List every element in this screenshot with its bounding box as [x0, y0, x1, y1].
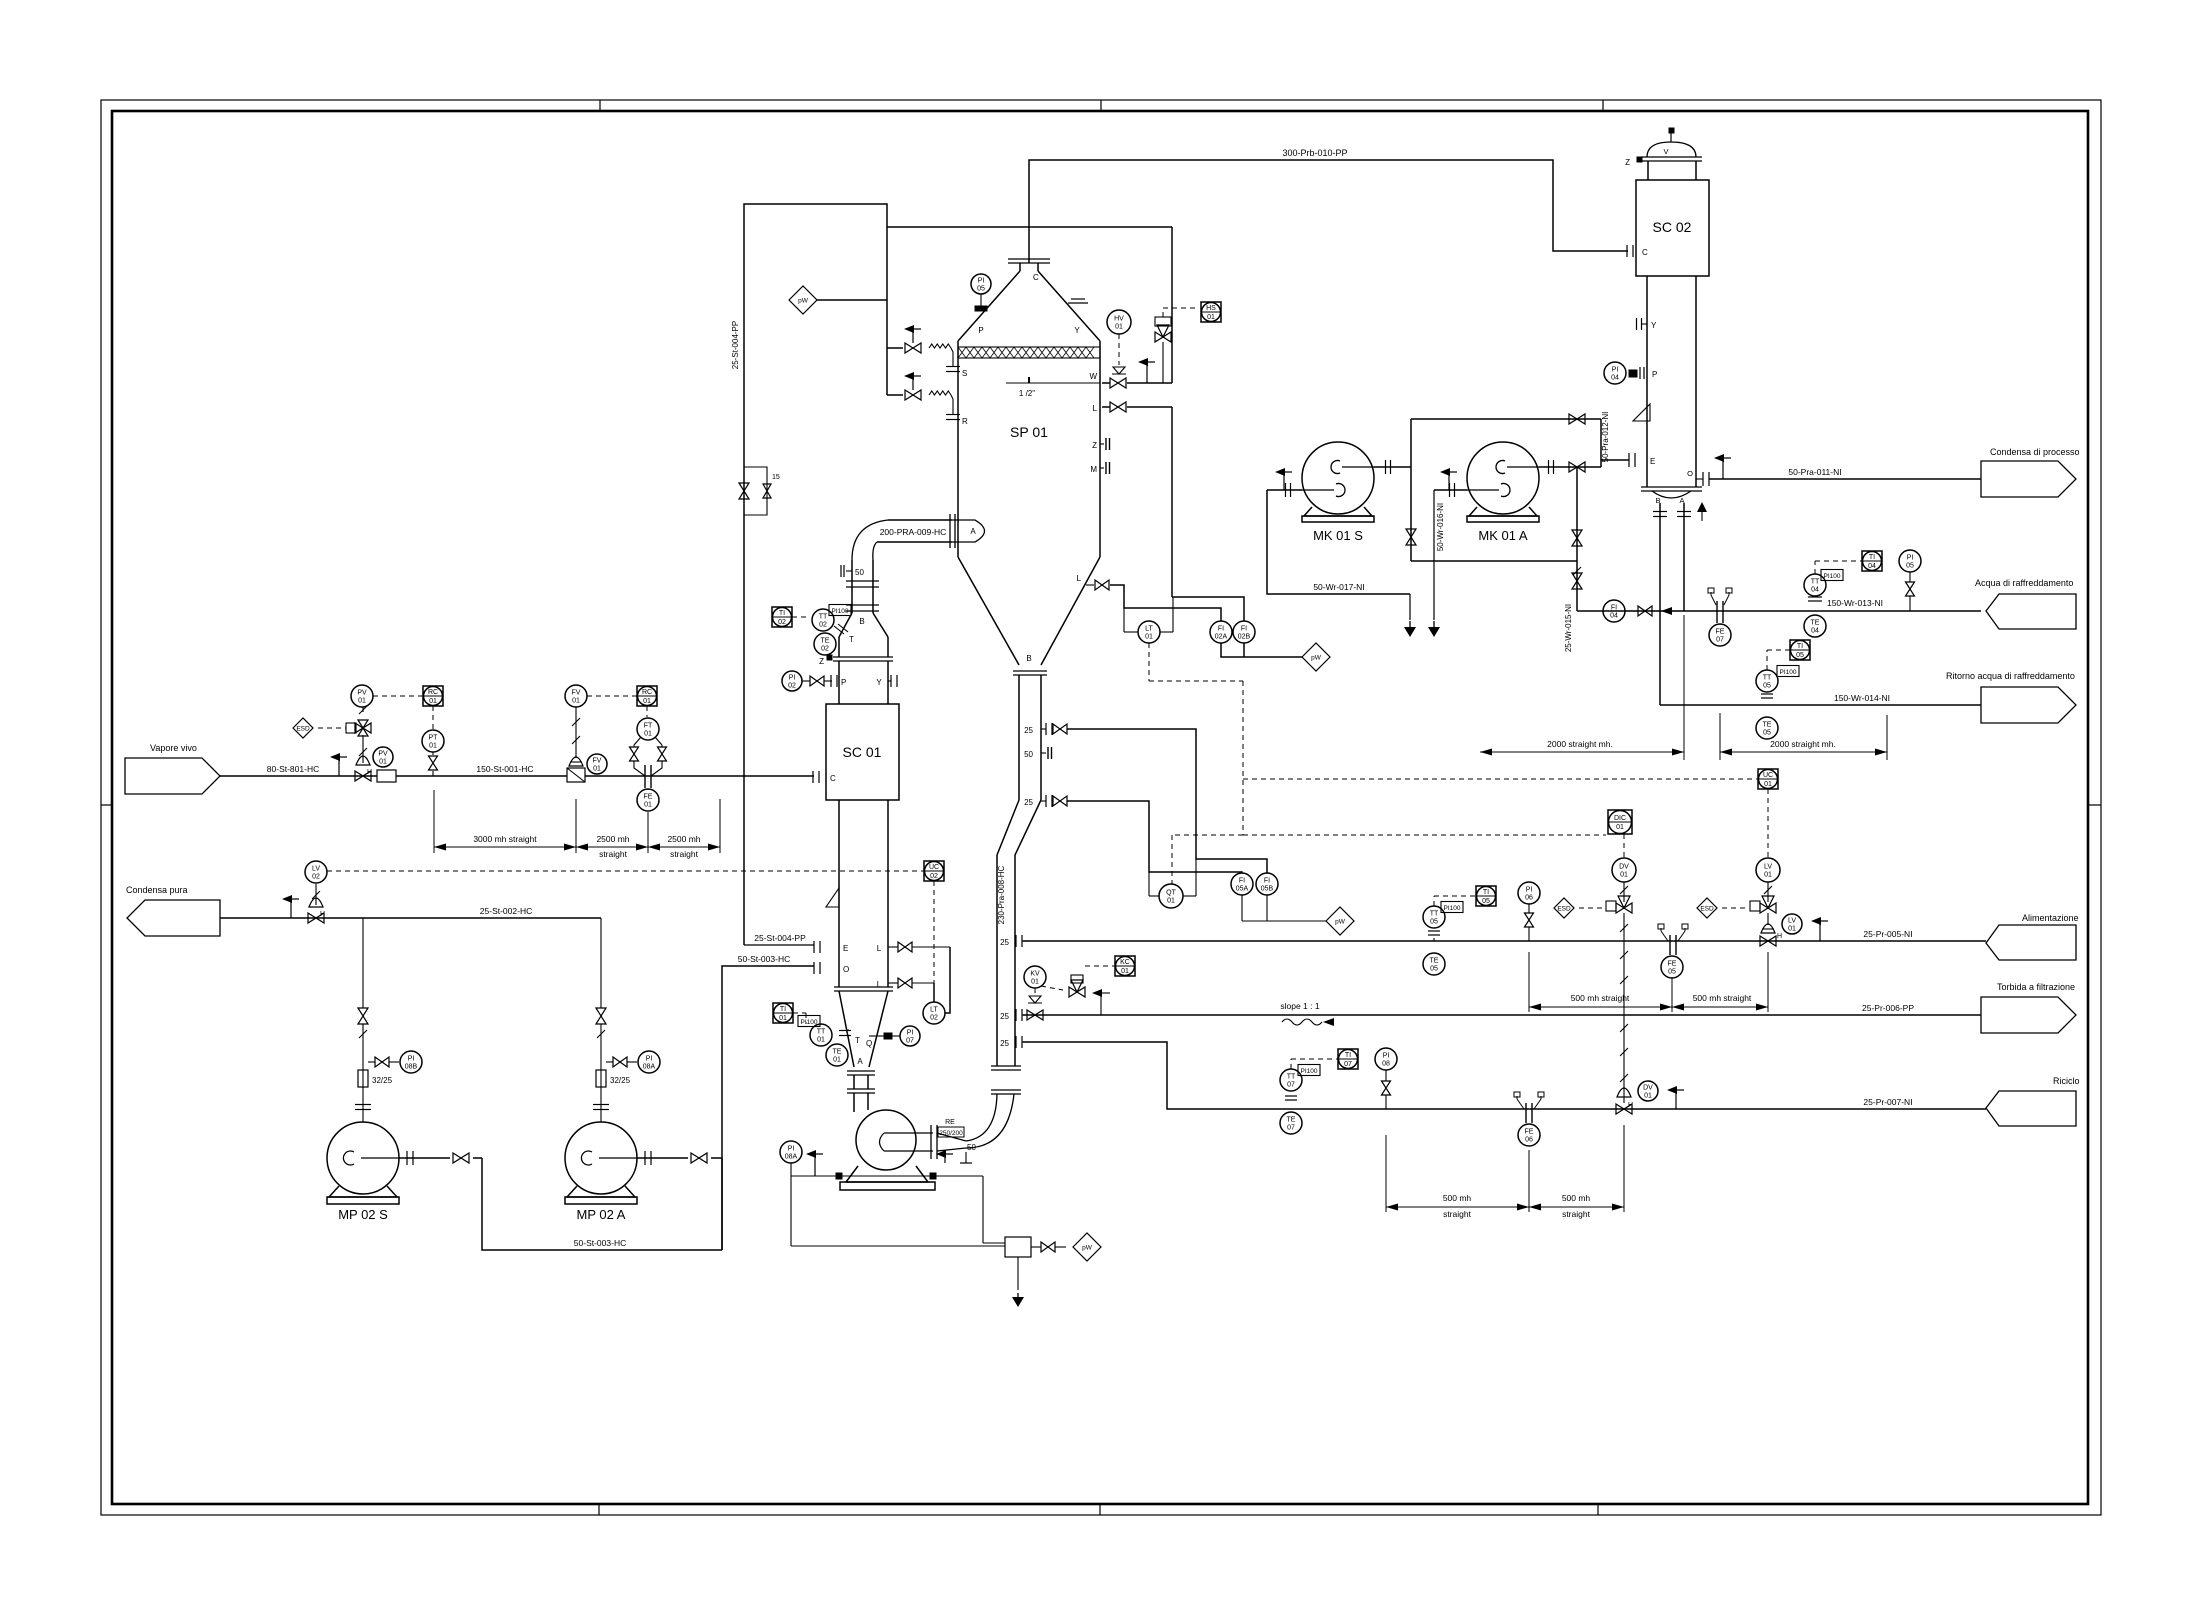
PI04 seal band	[1629, 370, 1637, 377]
svg-text:05: 05	[977, 286, 985, 293]
SC02 dished bottom	[1652, 491, 1691, 498]
wire 25-Pr-006	[1023, 1014, 1981, 1016]
muffler rect	[377, 770, 396, 782]
LT02 instrument	[923, 1002, 945, 1024]
P flange SC01	[830, 675, 832, 687]
TI01 panel instrument	[773, 1003, 793, 1023]
PI100 box TT01	[798, 1016, 820, 1027]
T stub cone	[846, 1029, 849, 1031]
MP02S discharge flange	[406, 1151, 408, 1165]
valve W nozzle	[1110, 378, 1126, 388]
wire equal right riser	[1576, 467, 1578, 611]
valve seal pot	[1041, 1242, 1055, 1252]
DV01 drain valve	[1617, 1088, 1631, 1097]
vent flag steam	[338, 757, 340, 776]
fold tick right-mid	[2088, 804, 2101, 806]
TI04 panel instrument	[1862, 551, 1882, 571]
enclosure top edge	[887, 226, 1172, 228]
svg-text:32/25: 32/25	[372, 1076, 393, 1085]
TI02 dashed	[792, 616, 810, 618]
TI02 panel instrument	[772, 607, 792, 627]
wire MP02S down	[482, 1158, 722, 1250]
svg-text:TI: TI	[780, 1006, 786, 1013]
svg-text:2500 mh: 2500 mh	[596, 834, 629, 844]
MP02S suction valve	[358, 1008, 368, 1024]
duct 200-PRA horizontal walls	[888, 519, 952, 521]
vent arrow near A	[1701, 507, 1703, 521]
svg-text:2500 mh: 2500 mh	[667, 834, 700, 844]
svg-text:01: 01	[644, 731, 652, 738]
svg-text:06: 06	[1525, 1137, 1533, 1144]
svg-text:PI: PI	[789, 675, 796, 682]
svg-text:E: E	[1650, 457, 1655, 466]
steam dim arrows	[434, 844, 446, 851]
svg-text:02: 02	[819, 622, 827, 629]
MK01A discharge wire	[1539, 466, 1601, 468]
svg-text:T: T	[849, 635, 854, 644]
svg-text:H: H	[320, 911, 325, 918]
FV01 stem	[575, 707, 577, 758]
HS01 signal dashed	[1162, 308, 1164, 317]
QT01 loop	[1148, 872, 1150, 896]
svg-text:01: 01	[1788, 926, 1796, 933]
valve PI02	[810, 676, 824, 686]
SC01 bottom flange	[834, 986, 893, 988]
svg-text:01: 01	[593, 766, 601, 773]
svg-text:Y: Y	[876, 678, 882, 687]
label 250/200	[938, 1127, 964, 1137]
svg-text:PI: PI	[408, 1056, 415, 1063]
svg-text:Condensa di processo: Condensa di processo	[1990, 447, 2080, 457]
svg-text:01: 01	[1121, 968, 1129, 975]
svg-text:LT: LT	[930, 1007, 938, 1014]
bypass loop	[744, 467, 767, 515]
M blind nozzle	[1100, 467, 1104, 469]
MK01S suction flange	[1285, 483, 1287, 497]
svg-text:150-Wr-014-NI: 150-Wr-014-NI	[1834, 693, 1890, 703]
Condensa di processo pentagon	[1981, 461, 2076, 497]
SC02 neck walls	[1647, 161, 1649, 180]
riser flange pair B	[991, 1089, 1021, 1091]
wire cone L to LT01	[1110, 585, 1221, 621]
fold tick bottom-right	[1597, 1504, 1599, 1515]
SC01 neck walls	[838, 661, 840, 704]
PI05b instrument	[1899, 550, 1921, 572]
seal pot drain arrow	[1017, 1257, 1019, 1290]
slope squiggle	[1282, 1019, 1322, 1025]
vent flag 005	[1819, 921, 1821, 941]
svg-text:08A: 08A	[643, 1064, 656, 1071]
svg-text:01: 01	[1031, 979, 1039, 986]
svg-text:02: 02	[821, 646, 829, 653]
svg-text:01: 01	[1145, 634, 1153, 641]
MK01S suction wire	[1267, 489, 1302, 491]
wire to E nozzle	[744, 944, 814, 946]
MP02A branch valve	[613, 1057, 627, 1067]
svg-text:LV: LV	[1764, 864, 1772, 871]
svg-text:pW: pW	[1082, 1245, 1093, 1252]
MK01S blower circle	[1302, 442, 1374, 514]
duct 50 stub	[846, 570, 852, 572]
UC02 panel instrument	[924, 861, 944, 881]
SP01 shell right wall	[1099, 341, 1101, 557]
svg-text:DIC: DIC	[1614, 815, 1626, 822]
svg-text:01: 01	[1167, 898, 1175, 905]
vent flag 011	[1722, 458, 1724, 479]
svg-text:DV: DV	[1643, 1085, 1653, 1092]
reducer	[937, 1133, 966, 1141]
svg-text:05: 05	[1430, 919, 1438, 926]
svg-text:32/25: 32/25	[610, 1076, 631, 1085]
svg-text:80-St-801-HC: 80-St-801-HC	[267, 764, 319, 774]
svg-text:straight: straight	[599, 849, 628, 859]
svg-text:RC: RC	[428, 689, 438, 696]
svg-text:TT: TT	[1430, 911, 1439, 918]
svg-text:15: 15	[772, 474, 780, 481]
svg-text:05: 05	[1763, 730, 1771, 737]
FE05 orifice taps	[1660, 928, 1662, 931]
O nozzle SC02	[1702, 472, 1704, 486]
vent flag S purge	[912, 329, 914, 343]
DV dashed	[1579, 907, 1605, 909]
duct flange pair 2	[846, 604, 879, 606]
ESD actuator box	[346, 723, 356, 733]
svg-text:01: 01	[817, 1037, 825, 1044]
svg-text:C: C	[1033, 273, 1039, 282]
MK01S discharge wire	[1374, 466, 1411, 468]
svg-text:TE: TE	[1811, 620, 1820, 627]
svg-text:FV: FV	[593, 758, 602, 765]
svg-text:A: A	[970, 527, 976, 536]
svg-text:07: 07	[1344, 1061, 1352, 1068]
wire Q to PI07	[869, 1035, 884, 1037]
svg-text:500 mh: 500 mh	[1562, 1193, 1591, 1203]
svg-text:25: 25	[1000, 1012, 1009, 1021]
steam dim ext lines	[433, 790, 435, 853]
SC02 dome	[1647, 142, 1696, 157]
svg-text:01: 01	[643, 698, 651, 705]
LV01 bubble2	[1782, 914, 1802, 934]
PI100 box TT05b	[1441, 902, 1463, 913]
svg-text:01: 01	[429, 698, 437, 705]
svg-text:500 mh straight: 500 mh straight	[1693, 993, 1752, 1003]
LV01 3-way	[1760, 903, 1776, 913]
A neck to pump	[853, 1093, 855, 1112]
svg-text:FI: FI	[1239, 878, 1245, 885]
wire 25-Pr-005	[1023, 940, 1986, 942]
MP02S discharge valve	[453, 1153, 469, 1163]
TT07 instrument	[1280, 1069, 1302, 1091]
pump seal drain lines	[790, 1163, 792, 1246]
svg-text:pW: pW	[798, 298, 809, 305]
wire 25-St-004 riser	[744, 204, 887, 945]
svg-text:TE: TE	[1430, 958, 1439, 965]
svg-text:TT: TT	[1287, 1074, 1296, 1081]
MP02A pump hub	[581, 1151, 592, 1165]
PI05 stem	[980, 294, 982, 306]
TT07 dashed	[1290, 1059, 1292, 1069]
svg-text:25: 25	[1000, 938, 1009, 947]
enclosure right edge upper	[1171, 227, 1173, 383]
svg-text:50-St-003-HC: 50-St-003-HC	[738, 954, 790, 964]
valve 006	[1027, 1010, 1043, 1020]
LV02 stem slash	[315, 884, 317, 905]
PI100 box TT07	[1298, 1065, 1320, 1076]
A neck flange 2	[847, 1088, 875, 1090]
svg-text:1 /2": 1 /2"	[1019, 389, 1035, 398]
SC02 neck flange	[1641, 156, 1702, 158]
LV02 bubble	[305, 861, 327, 883]
svg-text:02: 02	[930, 1015, 938, 1022]
FI02A instrument	[1210, 621, 1232, 643]
MP02A discharge wire	[637, 1157, 688, 1159]
svg-text:08A: 08A	[785, 1154, 798, 1161]
MP02A reducer 32/25	[596, 1070, 606, 1087]
valve 012 top	[1569, 414, 1585, 424]
Y stub SC01	[890, 675, 892, 687]
svg-text:TE: TE	[821, 638, 830, 645]
ESD diamond LV	[1697, 898, 1717, 918]
svg-text:01: 01	[572, 698, 580, 705]
svg-text:Ritorno acqua di raffreddament: Ritorno acqua di raffreddamento	[1946, 671, 2075, 681]
wire sample top	[1067, 729, 1267, 873]
svg-text:LV: LV	[312, 866, 320, 873]
MP02S branch valve	[375, 1057, 389, 1067]
FT01 tap valve B	[658, 747, 667, 761]
svg-text:25-St-004-PP: 25-St-004-PP	[754, 933, 806, 943]
08B instrument	[400, 1051, 422, 1073]
FV01 bubble	[587, 754, 607, 774]
svg-text:200-PRA-009-HC: 200-PRA-009-HC	[880, 527, 947, 537]
svg-text:50-Wr-016-NI: 50-Wr-016-NI	[1436, 503, 1445, 551]
svg-text:TT: TT	[1763, 675, 1772, 682]
FI05B instrument	[1256, 873, 1278, 895]
MP02S base	[329, 1186, 397, 1197]
TT01 instrument	[810, 1024, 832, 1046]
bypass valve main	[739, 483, 749, 499]
svg-text:25: 25	[1024, 798, 1033, 807]
wire equalization	[1411, 560, 1577, 562]
PI08A pump instrument	[780, 1141, 802, 1163]
UC02 dashed to LT02	[933, 881, 935, 1002]
svg-text:TI: TI	[1345, 1052, 1351, 1059]
svg-text:04: 04	[1611, 375, 1619, 382]
LV01 valve	[1767, 913, 1769, 925]
PT01 root valve	[429, 756, 438, 770]
FE07 orifice taps	[1710, 592, 1712, 595]
dim 500 bottom line b	[1529, 1206, 1624, 1208]
svg-text:500 mh: 500 mh	[1443, 1193, 1472, 1203]
svg-text:300-Prb-010-PP: 300-Prb-010-PP	[1282, 148, 1347, 158]
svg-text:01: 01	[1616, 824, 1624, 831]
TE01 instrument	[826, 1044, 848, 1066]
svg-text:E: E	[843, 944, 848, 953]
svg-text:05: 05	[1668, 969, 1676, 976]
spring R purge	[929, 391, 951, 395]
MK01A vent flag	[1448, 472, 1450, 490]
PI100 box TT05	[1777, 666, 1799, 677]
PI08 valve	[1382, 1081, 1391, 1095]
svg-text:LT: LT	[1145, 626, 1153, 633]
pump drain stub	[965, 1152, 967, 1163]
FE05 orifice flanges	[1669, 935, 1671, 955]
TT04 instrument	[1804, 574, 1826, 596]
RC01-PT01 dashed	[432, 706, 434, 730]
svg-text:PI100: PI100	[832, 608, 849, 615]
dim 500 line a	[1529, 1006, 1672, 1008]
3-way actuator box	[1155, 317, 1171, 326]
LV02-UC02 dashed	[327, 870, 924, 872]
DV01 bubble	[1612, 858, 1636, 882]
svg-text:TI: TI	[1483, 889, 1489, 896]
dim 2000 line left	[1480, 751, 1684, 753]
svg-text:P: P	[1652, 370, 1657, 379]
KV01 dashed	[1041, 986, 1063, 990]
svg-text:slope 1 : 1: slope 1 : 1	[1280, 1001, 1319, 1011]
KC01 panel instrument	[1115, 956, 1135, 976]
vent flag on W line	[1146, 362, 1148, 383]
Z tick	[827, 655, 832, 660]
FI02B instrument	[1233, 621, 1255, 643]
SC01 lower walls	[838, 800, 840, 987]
wire MK01S suction riser	[1267, 490, 1410, 594]
svg-text:FE: FE	[1525, 1129, 1534, 1136]
riser jog	[997, 800, 1019, 855]
seal line tick 2	[930, 1173, 936, 1179]
KV01 relief	[1028, 996, 1042, 1003]
svg-text:05: 05	[1763, 683, 1771, 690]
svg-text:W: W	[1089, 372, 1097, 381]
A neck flange 1	[847, 1070, 875, 1072]
TT05 flange	[1761, 693, 1773, 695]
svg-text:02A: 02A	[1215, 634, 1228, 641]
pW connector FI02	[1302, 643, 1330, 671]
SC02 level triangle	[1633, 404, 1650, 421]
PI04 instrument	[1604, 362, 1626, 384]
steam dim line	[434, 846, 720, 848]
LV01 bubble top	[1756, 858, 1780, 882]
SC02 head box	[1636, 180, 1709, 276]
svg-text:PI100: PI100	[1444, 905, 1461, 912]
svg-text:02: 02	[930, 873, 938, 880]
svg-text:PI: PI	[646, 1056, 653, 1063]
KC01 dashed	[1085, 965, 1115, 967]
pump discharge stadium	[880, 1133, 934, 1151]
svg-text:straight: straight	[1443, 1209, 1472, 1219]
svg-text:TE: TE	[1287, 1117, 1296, 1124]
TT05b flange	[1428, 930, 1440, 932]
svg-text:2000 straight mh.: 2000 straight mh.	[1770, 739, 1836, 749]
3-way valve on W riser	[1155, 332, 1171, 342]
MP02S reducer 32/25	[358, 1070, 368, 1087]
svg-text:FI: FI	[1264, 878, 1270, 885]
svg-text:TT: TT	[817, 1029, 826, 1036]
Acqua pentagon	[1986, 594, 2076, 629]
Y nozzle stub on cone	[1068, 302, 1088, 304]
A line flange	[1677, 511, 1691, 513]
dim 500 bottom line a	[1386, 1206, 1529, 1208]
TI05b panel instrument	[1476, 886, 1496, 906]
MP02A suction valve	[596, 1008, 606, 1024]
SC01 bottom cone	[839, 991, 854, 1067]
svg-text:T: T	[855, 1036, 860, 1045]
svg-text:FE: FE	[1668, 961, 1677, 968]
PI05 seal band	[975, 306, 987, 311]
FV01 controller bubble	[565, 685, 587, 707]
wire 012 drop	[1600, 419, 1602, 467]
svg-text:PI100: PI100	[1824, 573, 1841, 580]
vent pole 006	[1100, 993, 1102, 1015]
FE06 orifice flanges	[1525, 1103, 1527, 1123]
svg-text:Y: Y	[1074, 326, 1080, 335]
svg-text:FT: FT	[644, 723, 653, 730]
svg-text:FI: FI	[1218, 626, 1224, 633]
wire FI05 to pW	[1241, 895, 1243, 921]
Riciclo pentagon	[1986, 1091, 2076, 1126]
svg-text:ESD: ESD	[1557, 906, 1571, 913]
TE07 instrument	[1280, 1112, 1302, 1134]
FE07 instrument	[1709, 624, 1731, 646]
Ritorno pentagon	[1981, 687, 2076, 723]
svg-text:PI100: PI100	[1780, 669, 1797, 676]
valve 015	[1572, 573, 1582, 589]
svg-text:SP 01: SP 01	[1010, 424, 1048, 440]
svg-text:PI: PI	[907, 1030, 914, 1037]
svg-text:500 mh straight: 500 mh straight	[1571, 993, 1630, 1003]
MK01A hub top	[1496, 461, 1505, 474]
duct end cap A	[952, 520, 985, 542]
PI06 valve	[1525, 913, 1534, 927]
svg-text:HV: HV	[1114, 316, 1124, 323]
svg-text:01: 01	[358, 698, 366, 705]
TI07 panel instrument	[1338, 1049, 1358, 1069]
discharge elbow inner	[966, 1094, 997, 1141]
valve 25 bottom	[1053, 796, 1067, 806]
wire B line	[1659, 503, 1661, 705]
08A instrument	[638, 1051, 660, 1073]
L top nozzle valve	[898, 942, 912, 952]
pW connector SP01	[789, 286, 817, 314]
PI02 instrument	[782, 671, 802, 691]
svg-text:07: 07	[1287, 1125, 1295, 1132]
svg-text:01: 01	[1644, 1093, 1652, 1100]
MK01A suction wire	[1434, 489, 1467, 491]
svg-text:O: O	[1687, 469, 1693, 478]
spring S purge	[929, 344, 951, 348]
svg-text:DV: DV	[1619, 864, 1629, 871]
duct vertical walls	[851, 560, 853, 613]
enclosure left edge	[886, 227, 888, 395]
svg-text:04: 04	[1811, 587, 1819, 594]
MP02A discharge valve	[691, 1153, 707, 1163]
MK01A base	[1469, 507, 1537, 516]
svg-text:L: L	[877, 944, 882, 953]
wire 50-Pra-012 top	[1411, 418, 1601, 420]
pW connector seal	[1073, 1233, 1101, 1261]
DIC01 dashed down	[1623, 834, 1625, 858]
dip pipe tick	[1028, 377, 1030, 383]
Z blind nozzle	[1100, 443, 1104, 445]
SC01 level triangle	[826, 888, 839, 907]
HV01 signal dashed	[1118, 334, 1120, 365]
FI05A instrument	[1231, 873, 1253, 895]
FT01 instrument	[637, 718, 659, 740]
valve R purge	[905, 390, 921, 400]
svg-text:150-Wr-013-NI: 150-Wr-013-NI	[1827, 598, 1883, 608]
Alimentazione pentagon	[1986, 925, 2076, 960]
valve FI04	[1638, 606, 1652, 616]
pump volute circle	[856, 1110, 916, 1170]
